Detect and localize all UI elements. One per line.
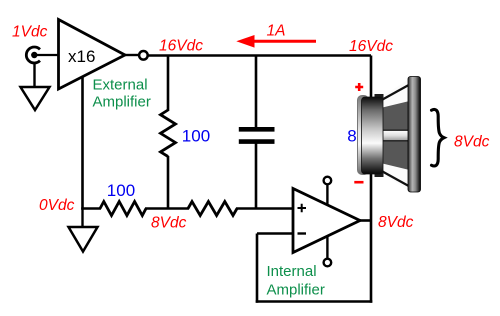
wire top rail: [148, 54, 372, 57]
input connector J1: [26, 47, 40, 63]
wire right rail upper: [370, 56, 373, 101]
resistor R2: [100, 202, 146, 216]
svg-text:8Vdc: 8Vdc: [151, 215, 187, 232]
wire ground drop (0Vdc): [81, 209, 83, 228]
current arrow 1A: [252, 40, 316, 43]
wire bottom rail segment 1: [81, 207, 101, 210]
wire top power pin: [326, 185, 328, 205]
op-amp U1 external amplifier: [59, 20, 126, 90]
wire input pin to amplifier: [34, 54, 58, 56]
wire inverting input feedback: [257, 232, 293, 235]
speaker cone upper shadow: [383, 101, 410, 130]
op-amp U2 internal amplifier: [293, 189, 360, 253]
wire bottom rail segment 2: [145, 207, 189, 210]
capacitor C1 top plate: [239, 127, 275, 132]
svg-text:External: External: [93, 76, 148, 93]
wire feedback bottom rail: [256, 300, 373, 303]
speaker cone lower shadow: [383, 142, 410, 171]
wire connector to ground: [33, 64, 35, 88]
speaker magnet body: [362, 97, 384, 174]
speaker magnet back cap: [358, 96, 369, 175]
wire bottom rail segment 3: [236, 207, 293, 210]
svg-text:16Vdc: 16Vdc: [349, 38, 393, 55]
svg-text:Amplifier: Amplifier: [93, 93, 151, 110]
wire feedback drop from external amplifier: [81, 77, 84, 210]
minus input mark: [298, 232, 307, 234]
speaker top strut: [383, 84, 411, 100]
speaker cone middle bar: [383, 130, 410, 141]
speaker cone backdrop: [382, 78, 410, 192]
svg-text:Amplifier: Amplifier: [267, 282, 325, 299]
plus input mark: [298, 204, 307, 213]
svg-text:Internal: Internal: [267, 263, 317, 280]
wire resistor branch upper: [167, 56, 170, 112]
output bubble: [139, 51, 148, 60]
wire capacitor branch upper: [255, 56, 258, 128]
svg-text:16Vdc: 16Vdc: [159, 38, 203, 55]
svg-text:8: 8: [347, 126, 356, 145]
wire resistor branch lower: [167, 156, 170, 210]
label + speaker terminal: [355, 83, 363, 91]
svg-text:100: 100: [182, 127, 210, 146]
top power pin circle: [324, 177, 332, 185]
label - speaker terminal: [354, 181, 363, 184]
speaker magnet tabs: [375, 94, 384, 101]
svg-text:1Vdc: 1Vdc: [12, 24, 48, 41]
curly brace: [432, 109, 445, 165]
resistor R3: [188, 202, 237, 216]
svg-text:1A: 1A: [267, 23, 286, 40]
capacitor C1 bottom plate: [239, 139, 275, 144]
bottom power pin circle: [324, 259, 332, 267]
wire feedback left drop: [256, 234, 259, 303]
svg-text:100: 100: [107, 181, 135, 200]
ground (input): [21, 87, 50, 110]
wire bottom power pin: [326, 236, 328, 258]
svg-text:8Vdc: 8Vdc: [454, 134, 490, 151]
wire op-amp output: [360, 219, 372, 222]
svg-text:x16: x16: [68, 47, 95, 66]
wire amp apex to output bubble: [125, 54, 139, 56]
svg-text:0Vdc: 0Vdc: [39, 197, 75, 214]
speaker rim: [408, 77, 421, 193]
wire capacitor branch lower: [255, 144, 258, 210]
speaker bottom strut: [383, 172, 411, 188]
resistor R1: [161, 110, 176, 157]
speaker LS1: [358, 77, 421, 193]
ground (0Vdc): [69, 227, 98, 252]
input connector center pin: [31, 52, 37, 58]
svg-text:8Vdc: 8Vdc: [378, 214, 414, 231]
wire right rail lower: [370, 170, 373, 303]
